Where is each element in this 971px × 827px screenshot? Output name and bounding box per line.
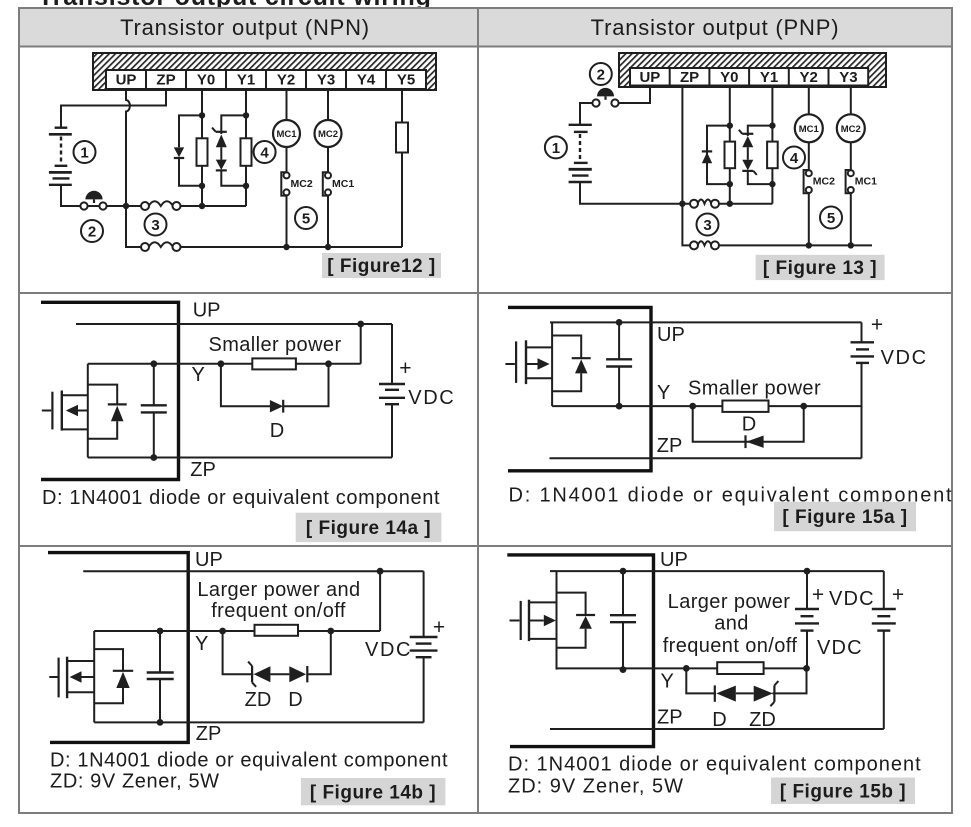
load resistor (smaller power): [722, 401, 768, 412]
svg-text:[ Figure 14a ]: [ Figure 14a ]: [306, 518, 431, 539]
svg-text:+: +: [399, 357, 411, 380]
svg-text:1: 1: [80, 145, 88, 162]
contact MC1 under coil MC2: [323, 172, 355, 195]
fuse top (circled 3): [141, 201, 181, 210]
figure 14b caption box: [301, 778, 446, 805]
svg-text:Y: Y: [657, 382, 670, 404]
body diode: [88, 385, 127, 439]
figure 14a caption box: [296, 513, 442, 542]
circled 3: [145, 214, 167, 236]
fuse bottom (circled 3): [141, 242, 181, 251]
node label Y: [657, 382, 670, 404]
junction dots on Y wire: [218, 360, 332, 367]
svg-text:Y2: Y2: [277, 72, 295, 89]
MOSFET drain-source rail: [87, 364, 89, 458]
svg-text:VDC: VDC: [881, 347, 928, 369]
figure 12 caption box: [322, 253, 441, 278]
svg-text:3: 3: [703, 217, 711, 234]
label D: [288, 689, 302, 711]
svg-text:4: 4: [260, 145, 269, 162]
node label ZP: [657, 707, 683, 729]
svg-text:ZP: ZP: [190, 459, 216, 481]
PLC boundary (thick): [48, 553, 188, 743]
contact MC1 under coil MC2: [846, 170, 878, 193]
MOSFET output transistor: [510, 600, 557, 641]
resistor on Y1: [241, 138, 252, 166]
label: and: [714, 613, 749, 635]
D + ZD snubber loop: [686, 668, 806, 706]
svg-text:D: 1N4001 diode or equivalent: D: 1N4001 diode or equivalent component: [50, 750, 448, 772]
wire: Y0 column: [729, 86, 731, 204]
wire: battery minus to pushbutton rail: [61, 185, 141, 206]
wire: ZP stub to battery rail: [61, 89, 166, 128]
pushbutton (circled 2): [592, 88, 618, 107]
terminal label boxes UP ZP Y0 Y1 Y2 Y3 Y4 Y5: [106, 70, 426, 89]
wire: UP: [550, 321, 862, 323]
label VDC: [408, 387, 455, 409]
table column divider: [477, 8, 479, 813]
svg-text:ZP: ZP: [657, 707, 683, 729]
terminal label boxes UP ZP Y0 Y1 Y2 Y3: [630, 68, 868, 86]
battery VDC: [851, 322, 875, 458]
svg-text:and: and: [714, 613, 749, 635]
page title (cut off at top): Transistor output circuit wiring: [38, 0, 432, 11]
label +: [433, 616, 445, 639]
node label UP: [660, 549, 688, 571]
svg-text:ZP: ZP: [680, 69, 699, 86]
MOSFET output transistor: [49, 657, 94, 699]
label: Larger power and: [197, 579, 360, 601]
svg-text:Y0: Y0: [720, 69, 738, 86]
node label UP: [195, 549, 223, 571]
table row line under header: [19, 46, 952, 48]
svg-text:Y: Y: [195, 633, 208, 655]
table header row background: [19, 8, 952, 46]
MOSFET output transistor: [42, 391, 88, 431]
label D: [270, 420, 284, 442]
svg-text:MC2: MC2: [841, 124, 861, 135]
junction dots on UP wire: [620, 568, 811, 575]
junction dots on Y wire: [689, 403, 807, 410]
capacitor: [147, 631, 174, 722]
svg-text:ZP: ZP: [156, 72, 175, 89]
circled 4: [783, 147, 805, 169]
svg-text:ZP: ZP: [657, 435, 683, 457]
svg-text:Y5: Y5: [397, 72, 415, 89]
svg-text:MC1: MC1: [855, 176, 877, 188]
caption: ZD: 9V Zener, 5W: [50, 771, 220, 793]
wire: ZP return: [88, 457, 392, 459]
table row line 3: [19, 545, 952, 547]
svg-text:Larger power: Larger power: [668, 591, 791, 613]
wire: ZP return: [94, 721, 423, 723]
wire: Y / load return: [552, 405, 861, 407]
node label UP: [657, 324, 685, 346]
circled 2: [590, 63, 612, 85]
PLC boundary (thick): [41, 302, 179, 479]
caption: D: 1N4001 diode or equivalent component: [42, 487, 440, 509]
battery VDC: [379, 324, 405, 458]
svg-text:MC1: MC1: [332, 178, 354, 190]
svg-text:5: 5: [302, 211, 310, 228]
label: Smaller power: [688, 378, 821, 400]
svg-text:frequent on/off: frequent on/off: [663, 635, 798, 657]
svg-text:Y: Y: [661, 671, 674, 693]
junction dot on UP wire: [357, 321, 364, 328]
svg-text:D: D: [742, 414, 756, 436]
wire: Y3 column: [327, 89, 329, 247]
load resistor (larger power): [255, 625, 299, 636]
label VDC: [365, 639, 412, 661]
wire: UP column down to bottom fuse rail: [126, 206, 141, 247]
wire: Y3 column: [850, 86, 852, 246]
junction dot on UP wire: [377, 568, 384, 575]
svg-text:Transistor output (PNP): Transistor output (PNP): [591, 15, 840, 40]
svg-text:[ Figure 15a ]: [ Figure 15a ]: [782, 507, 907, 528]
battery 1 (circled 1): [569, 125, 592, 182]
zener pair branch on Y1: [739, 126, 773, 185]
svg-text:ZD: ZD: [245, 689, 272, 711]
label VDC (battery 2): [817, 637, 863, 659]
wire: ZP return: [550, 728, 884, 730]
circled 1: [545, 136, 567, 158]
circled 4: [254, 141, 276, 163]
svg-text:MC1: MC1: [799, 124, 820, 135]
header cell: Transistor output (NPN): [120, 15, 370, 40]
svg-text:Smaller power: Smaller power: [688, 378, 821, 400]
svg-text:UP: UP: [660, 549, 688, 571]
wire: Y5 column: [401, 89, 403, 247]
label D: [712, 709, 726, 731]
node label Y: [192, 364, 205, 386]
flyback diode D loop: [221, 364, 329, 413]
svg-text:+: +: [433, 616, 445, 639]
svg-text:VDC: VDC: [408, 387, 455, 409]
node label ZP: [190, 459, 216, 481]
wire: UP: [550, 570, 884, 572]
PLC boundary (thick): [507, 555, 653, 747]
svg-text:MC2: MC2: [813, 176, 835, 188]
label: Smaller power: [208, 334, 341, 356]
svg-text:UP: UP: [657, 324, 685, 346]
svg-text:frequent on/off: frequent on/off: [211, 600, 346, 622]
label VDC: [881, 347, 928, 369]
wire: ZP return: [550, 457, 862, 459]
svg-text:UP: UP: [116, 72, 137, 89]
wire: bottom rail to Y5 load: [180, 246, 402, 248]
svg-text:2: 2: [597, 67, 605, 84]
diode branch on Y0: [174, 115, 202, 185]
svg-text:Smaller power: Smaller power: [208, 334, 341, 356]
svg-text:VDC: VDC: [365, 639, 412, 661]
MOSFET drain-source rail: [93, 631, 95, 722]
label ZD: [749, 709, 776, 731]
svg-text:[ Figure 13 ]: [ Figure 13 ]: [763, 258, 877, 279]
circled 3: [697, 214, 719, 236]
svg-text:UP: UP: [195, 549, 223, 571]
svg-text:2: 2: [88, 224, 96, 241]
svg-text:Transistor output (NPN): Transistor output (NPN): [120, 15, 370, 40]
svg-text:ZD: 9V Zener, 5W: ZD: 9V Zener, 5W: [508, 776, 684, 798]
contact MC2 under coil MC1: [804, 170, 836, 193]
label D: [742, 414, 756, 436]
svg-text:ZD: ZD: [749, 709, 776, 731]
svg-text:D: D: [270, 420, 284, 442]
wire: Y2 column: [286, 89, 288, 247]
junction dots on Y wire: [683, 665, 810, 672]
ZD + D snubber loop: [223, 631, 331, 687]
coil MC2 on Y3: [315, 120, 342, 147]
capacitor: [141, 364, 167, 458]
junction dots Y0: [727, 122, 733, 206]
svg-text:D: 1N4001 diode or equivalent: D: 1N4001 diode or equivalent component: [42, 487, 440, 509]
fuse top (circled 3): [690, 200, 719, 208]
label + VDC (battery 1): [812, 584, 875, 611]
node label UP: [193, 300, 221, 322]
svg-text:[ Figure 14b ]: [ Figure 14b ]: [310, 783, 436, 804]
battery VDC 1: [795, 571, 819, 668]
diode branch on Y0: [702, 126, 730, 185]
pushbutton (circled 2): [80, 191, 106, 210]
label: frequent on/off: [663, 635, 798, 657]
zener pair branch on Y1: [212, 115, 246, 185]
figure 13 caption box: [756, 255, 885, 280]
svg-text:UP: UP: [193, 300, 221, 322]
battery 1 (circled 1): [49, 128, 72, 185]
svg-text:D: 1N4001 diode or equivalent: D: 1N4001 diode or equivalent component: [508, 754, 922, 776]
flyback diode D loop: [693, 406, 804, 448]
wire: fuse to Y0/Y1 group bottoms: [719, 203, 773, 205]
svg-text:Y1: Y1: [237, 72, 255, 89]
svg-text:[ Figure12 ]: [ Figure12 ]: [327, 256, 435, 277]
junction dots on Y wire: [219, 628, 334, 635]
svg-text:+: +: [892, 584, 904, 607]
node label Y: [195, 633, 208, 655]
junction dot capacitor bottom: [620, 666, 627, 673]
junction dots Y1: [769, 122, 775, 187]
wire: UP: [83, 570, 423, 572]
load resistor (smaller power): [252, 358, 296, 369]
svg-text:D: D: [712, 709, 726, 731]
circled 1: [74, 141, 96, 163]
label: frequent on/off: [211, 600, 346, 622]
junction dots on capacitor: [157, 628, 164, 726]
wire: Y1 column: [245, 89, 247, 206]
label ZD: [245, 689, 272, 711]
junction dots bottom rail: [283, 244, 331, 250]
circled 5: [820, 207, 842, 229]
table row line 2: [19, 292, 952, 294]
svg-text:+: +: [812, 584, 824, 607]
wire: ZP column down: [682, 86, 690, 246]
wire: Y2 column: [808, 86, 810, 246]
caption: D: 1N4001 diode or equivalent component: [50, 750, 448, 772]
svg-text:4: 4: [790, 150, 799, 167]
circled 2: [81, 220, 103, 242]
svg-text:Y3: Y3: [839, 69, 857, 86]
label + (battery 2): [892, 584, 904, 607]
svg-text:D: D: [288, 689, 302, 711]
svg-text:Y0: Y0: [197, 72, 215, 89]
junction dot ZP x battery rail: [679, 201, 685, 207]
resistor on Y1: [767, 142, 778, 169]
svg-text:+: +: [871, 314, 883, 337]
wire: bottom rail to loads: [719, 244, 872, 246]
label +: [871, 314, 883, 337]
figure 15a caption box: [774, 502, 916, 531]
node label Y: [661, 671, 674, 693]
junction dots Y1: [243, 112, 249, 189]
svg-text:5: 5: [827, 210, 835, 227]
wire: battery minus to ZP line: [580, 182, 690, 204]
svg-text:Larger power and: Larger power and: [197, 579, 360, 601]
wire: UP column with hop over battery rail: [126, 89, 130, 206]
label +: [399, 357, 411, 380]
header cell: Transistor output (PNP): [591, 15, 840, 40]
resistor on Y0: [197, 138, 208, 166]
wire: Y0 column: [201, 89, 203, 206]
circled 5: [295, 207, 317, 229]
battery VDC: [410, 571, 438, 722]
wire: pushbutton to battery plus: [580, 103, 592, 125]
junction dot on UP wire: [616, 319, 623, 326]
load resistor on Y5: [396, 123, 408, 153]
svg-text:MC1: MC1: [276, 129, 297, 140]
svg-text:Y2: Y2: [800, 69, 818, 86]
svg-text:UP: UP: [639, 69, 660, 86]
svg-text:VDC: VDC: [829, 588, 875, 610]
svg-text:Y1: Y1: [760, 69, 778, 86]
capacitor: [606, 322, 632, 406]
junction dot UP x pushbutton rail: [123, 203, 129, 209]
load resistor (larger power): [717, 662, 763, 674]
junction dot capacitor bottom: [616, 403, 623, 410]
resistor on Y0: [725, 142, 736, 169]
svg-text:Y4: Y4: [357, 72, 376, 89]
junction dots on capacitor: [150, 360, 157, 461]
wire: UP terminal to pushbutton: [619, 86, 650, 104]
svg-text:Y: Y: [192, 364, 205, 386]
PLC boundary (thick): [508, 307, 651, 470]
wire: Y1 column: [771, 86, 773, 204]
terminal strip hatched bar: [93, 53, 436, 90]
svg-text:3: 3: [151, 217, 159, 234]
caption: ZD: 9V Zener, 5W: [508, 776, 684, 798]
wire: Y: [88, 324, 361, 364]
coil MC1 on Y2: [273, 120, 300, 147]
junction dots Y0: [199, 112, 205, 209]
junction dots bottom rail: [806, 242, 854, 248]
svg-text:1: 1: [552, 140, 560, 157]
svg-text:ZP: ZP: [196, 723, 222, 745]
svg-text:ZD: 9V Zener, 5W: ZD: 9V Zener, 5W: [50, 771, 220, 793]
MOSFET drain-source rail: [556, 571, 558, 670]
wire: fuse to Y0/Y1 groups: [180, 205, 246, 207]
svg-text:MC2: MC2: [318, 129, 338, 140]
MOSFET drain-source rail: [551, 322, 553, 406]
coil MC2 on Y3: [837, 114, 865, 142]
node label ZP: [657, 435, 683, 457]
capacitor: [610, 571, 636, 670]
caption: D: 1N4001 diode or equivalent component: [509, 485, 954, 507]
svg-text:VDC: VDC: [817, 637, 863, 659]
body diode: [557, 593, 596, 648]
body diode: [94, 649, 133, 703]
node label ZP: [196, 723, 222, 745]
wire: UP: [76, 323, 392, 325]
coil MC1 on Y2: [795, 114, 823, 142]
body diode: [552, 336, 591, 392]
wire: Y / load: [557, 667, 807, 669]
figure 15b caption box: [771, 778, 915, 805]
caption: D: 1N4001 diode or equivalent component: [508, 754, 922, 776]
fuse bottom (circled 3): [690, 241, 719, 249]
svg-text:MC2: MC2: [291, 178, 313, 190]
terminal strip hatched bar: [619, 53, 886, 87]
contact MC2 under coil MC1: [281, 172, 313, 195]
label: Larger power: [668, 591, 791, 613]
battery VDC 2: [872, 571, 896, 729]
svg-text:Y3: Y3: [317, 72, 335, 89]
MOSFET output transistor: [505, 340, 552, 384]
svg-text:[ Figure 15b ]: [ Figure 15b ]: [780, 782, 906, 803]
wire: Y: [94, 571, 380, 631]
